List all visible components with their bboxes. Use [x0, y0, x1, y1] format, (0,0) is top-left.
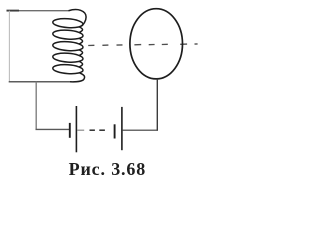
- dashed link between battery cells: [90, 129, 95, 131]
- battery cell 1 long plate (positive): [75, 106, 77, 152]
- wire: horizontal to battery negative terminal: [36, 128, 70, 130]
- wire: bottom lead of coil: [9, 81, 70, 83]
- wire: stub from cell 1 positive plate: [77, 129, 84, 131]
- battery cell 2 short plate (negative): [114, 124, 116, 138]
- wire: vertical lead up to ring: [156, 79, 158, 131]
- coil turn link 2-3: [79, 38, 82, 44]
- coil turn 2: [53, 30, 83, 39]
- coil turn link 4-5: [79, 61, 82, 67]
- dashed axis line of coil and ring: [88, 44, 94, 46]
- wire: left vertical connecting top and bottom leads: [8, 11, 10, 82]
- coil turn 4: [53, 53, 83, 62]
- coil turn link 3-4: [79, 50, 82, 56]
- coil entry hook: [69, 10, 87, 27]
- coil turn link 1-2: [79, 27, 82, 33]
- battery cell 1 short plate (negative): [69, 123, 71, 138]
- coil turn 5: [53, 65, 83, 74]
- wire: top lead of coil: [7, 10, 69, 12]
- wire: battery positive to ring lead: [123, 129, 159, 131]
- wire: dark tip of top lead: [7, 10, 20, 12]
- battery cell 2 long plate (positive): [121, 107, 123, 150]
- caption: [69, 160, 147, 178]
- coil turn 1: [53, 19, 83, 28]
- wire: vertical drop from bottom lead to battery: [35, 82, 37, 130]
- ring (conducting loop on coil axis): [130, 9, 183, 79]
- coil turn 3: [53, 42, 83, 51]
- coil exit sweep: [70, 73, 85, 82]
